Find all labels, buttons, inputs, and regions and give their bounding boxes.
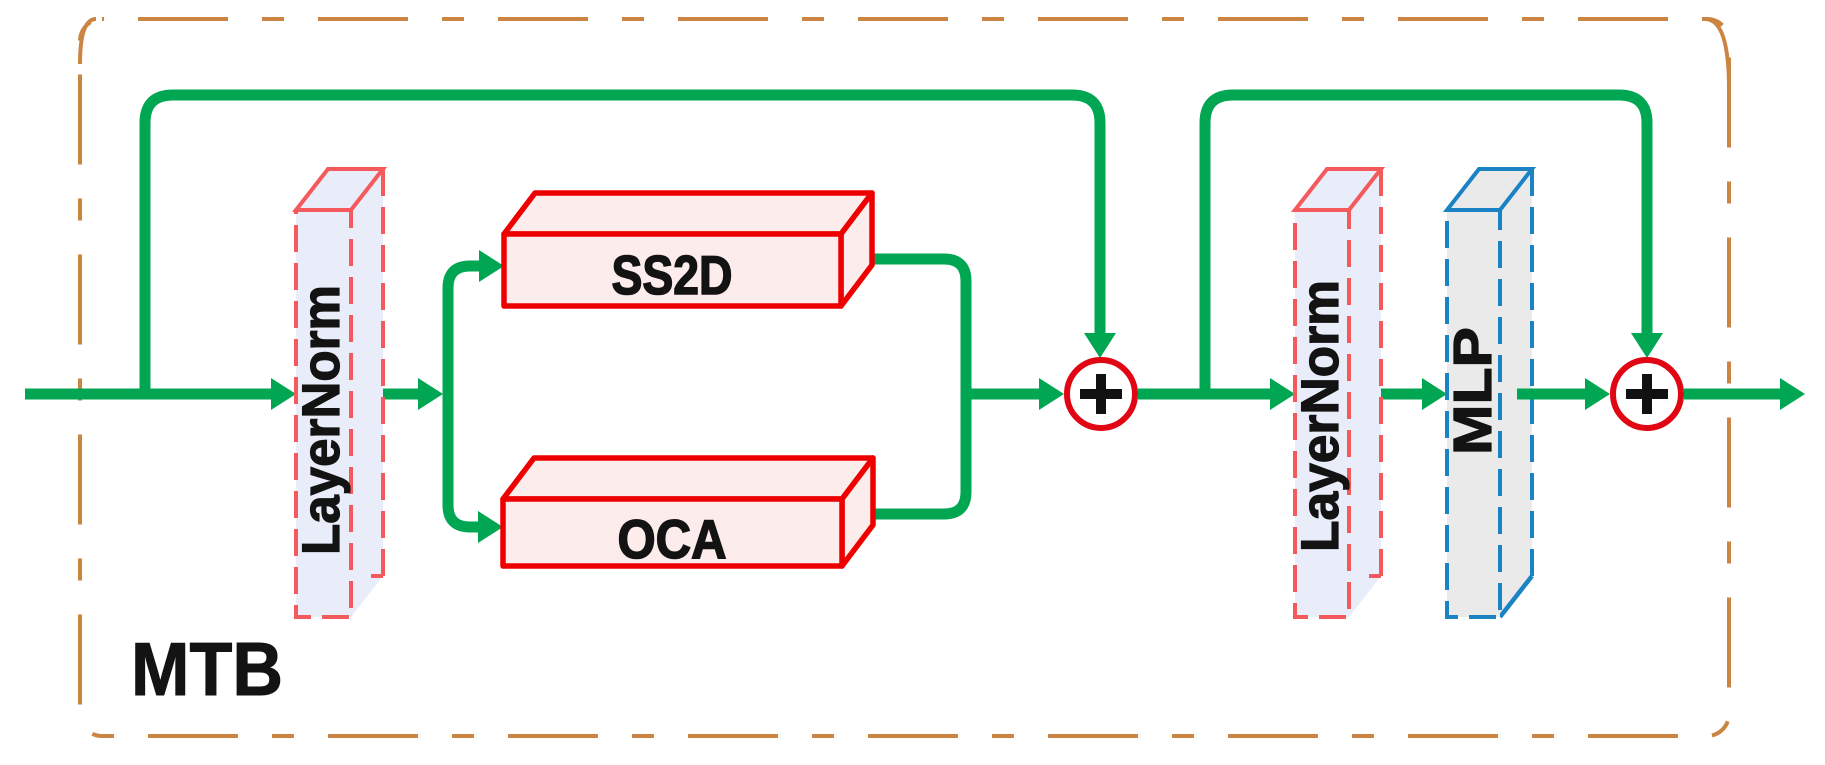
svg-text:MLP: MLP [1443,327,1503,455]
svg-text:OCA: OCA [618,508,727,570]
svg-text:LayerNorm: LayerNorm [292,285,351,555]
svg-text:SS2D: SS2D [612,244,733,306]
svg-text:LayerNorm: LayerNorm [1291,280,1350,552]
svg-text:MTB: MTB [131,627,283,711]
